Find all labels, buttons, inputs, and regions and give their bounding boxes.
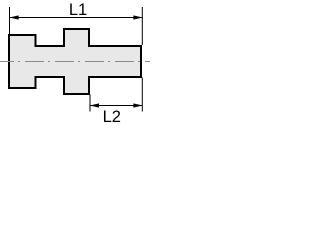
extension line left (L1) (9, 7, 11, 34)
centerline (0, 61, 150, 63)
arrowhead L2 left (90, 103, 99, 107)
extension line right (L1/L2) (141, 7, 143, 45)
arrowhead L1 right (133, 15, 142, 19)
extension line right (L2) (141, 78, 143, 112)
arrowhead L1 left (9, 15, 18, 19)
fitting body profile (9, 29, 141, 94)
dimension line L1 (10, 17, 143, 19)
extension line left (L2) (89, 95, 91, 112)
arrowhead L2 right (133, 103, 142, 107)
dimension line L2 (90, 105, 142, 107)
svg-text:L2: L2 (103, 108, 121, 126)
svg-text:L1: L1 (69, 1, 87, 19)
